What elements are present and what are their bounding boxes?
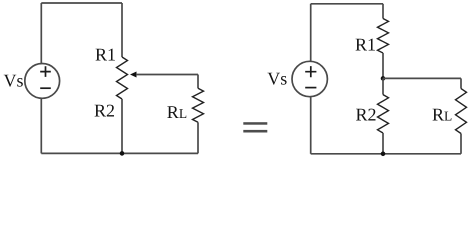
junction dot (bottom node, right circuit) (381, 152, 386, 157)
wire: top wire left circuit (41, 2, 122, 4)
potentiometer body R1/R2 (zigzag) (117, 57, 128, 99)
wire: RL branch lower (right circuit) (460, 134, 462, 154)
wire: top wire right circuit (311, 3, 383, 5)
wiper arrowhead (130, 72, 137, 78)
label + of source Vs (right) (305, 66, 316, 77)
wire: RL branch upper (right circuit) (460, 78, 462, 88)
wire: R1 to junction (382, 53, 384, 78)
junction dot (pot bottom, left circuit) (120, 151, 125, 156)
svg-text:R2: R2 (94, 101, 115, 121)
wire: left vertical lower (source to bottom) (40, 98, 42, 153)
wire: R2 branch upper (382, 78, 384, 94)
svg-text:R2: R2 (356, 105, 377, 125)
wire: pot branch lower (121, 99, 123, 153)
svg-text:Vs: Vs (4, 71, 24, 91)
label + of source Vs (left) (40, 66, 51, 77)
wire: R2 branch lower (382, 133, 384, 154)
wire: bottom wire left circuit (41, 152, 198, 154)
wire: bottom wire right circuit (311, 153, 461, 155)
junction dot (mid node, right circuit) (381, 76, 386, 81)
svg-text:Vs: Vs (267, 69, 287, 89)
svg-text:R1: R1 (355, 35, 376, 55)
resistor R2 (right circuit zigzag) (378, 95, 389, 133)
label - of source Vs (right) (305, 87, 316, 89)
wire: RL branch lower (left circuit) (197, 122, 199, 153)
svg-text:RL: RL (167, 102, 187, 122)
equals sign bottom bar (243, 130, 267, 133)
wire: mid horizontal to RL (383, 77, 461, 79)
wire: left vertical upper (right circuit) (310, 4, 312, 62)
svg-text:RL: RL (432, 105, 452, 125)
resistor RL (left circuit zigzag) (193, 88, 204, 122)
svg-text:R1: R1 (95, 45, 116, 65)
wire: R1 branch upper (right circuit) (382, 4, 384, 19)
voltage source Vs (right) (292, 61, 327, 96)
wire: wiper horizontal (136, 74, 198, 76)
equals sign top bar (243, 122, 267, 125)
resistor R1 (right circuit zigzag) (378, 19, 389, 54)
resistor RL (right circuit zigzag) (456, 89, 467, 134)
wire: left vertical lower (right circuit) (310, 97, 312, 154)
voltage source Vs (left) (25, 64, 60, 99)
label - of source Vs (left) (40, 87, 51, 89)
wire: left vertical upper (source to top) (40, 3, 42, 64)
wire: RL branch upper (left circuit) (197, 75, 199, 89)
wire: pot branch upper (121, 3, 123, 57)
